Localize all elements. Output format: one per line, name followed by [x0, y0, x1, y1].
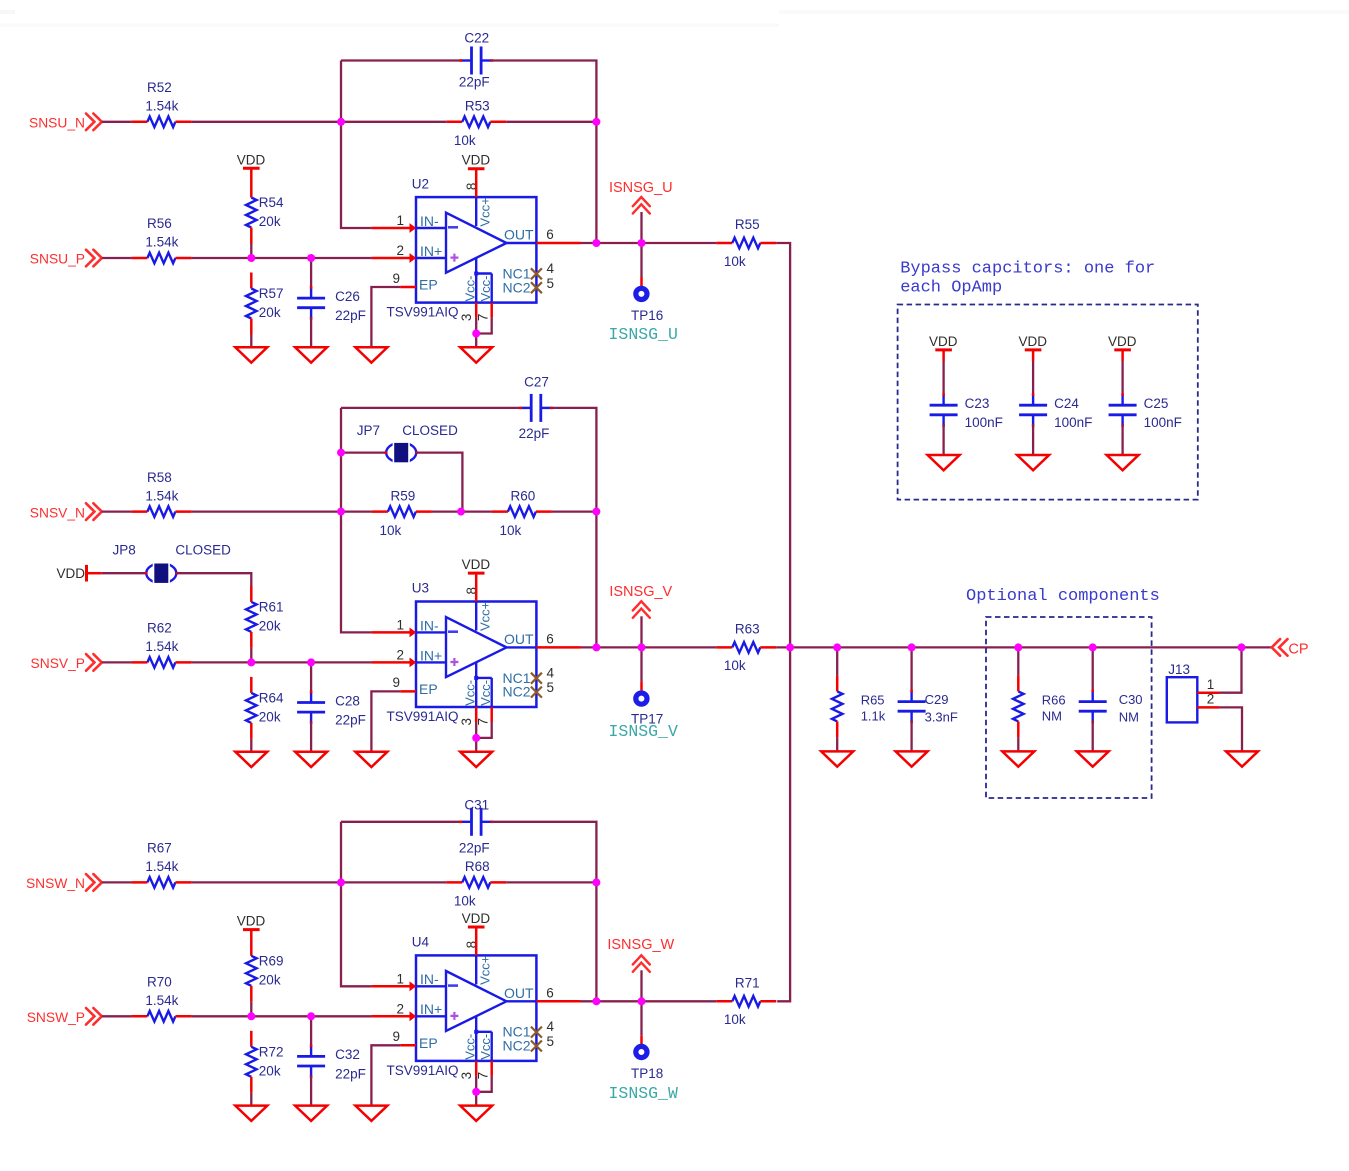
- svg-text:J13: J13: [1168, 662, 1190, 677]
- junction: [592, 239, 600, 247]
- wire EP to ground: [371, 691, 400, 751]
- svg-text:Optional components: Optional components: [966, 587, 1160, 606]
- svg-text:R61: R61: [259, 599, 284, 614]
- svg-text:2: 2: [396, 243, 404, 258]
- wire port to R52: [102, 121, 132, 123]
- net label ISNSG_V: [609, 584, 672, 618]
- wire OUT to R63: [581, 646, 717, 648]
- svg-text:SNSW_P: SNSW_P: [27, 1010, 85, 1025]
- svg-text:EP: EP: [419, 277, 438, 293]
- svg-text:Vcc-: Vcc-: [463, 1034, 478, 1060]
- jumper JP8 (closed): [145, 562, 179, 585]
- pin stubs (red): [371, 573, 580, 722]
- dashed box bypass capacitors: [898, 305, 1198, 500]
- svg-text:C25: C25: [1144, 396, 1169, 411]
- wire net flag to OUT line: [640, 970, 642, 1001]
- junction: [472, 1088, 480, 1096]
- wire OUT to R55: [581, 242, 717, 244]
- svg-text:1: 1: [396, 971, 404, 986]
- svg-text:5: 5: [547, 1034, 555, 1049]
- symbol body: [416, 602, 536, 708]
- power VDD: [237, 914, 266, 930]
- svg-text:NC2: NC2: [503, 279, 531, 295]
- ground: [295, 347, 327, 362]
- svg-text:1.54k: 1.54k: [145, 488, 178, 503]
- wire R66 to ground: [1017, 737, 1019, 751]
- svg-text:R60: R60: [511, 488, 536, 503]
- wire OUT line down to test point: [640, 647, 642, 681]
- svg-text:4: 4: [547, 1019, 555, 1034]
- wire R67 to feedback node: [191, 881, 341, 883]
- junction: [1089, 643, 1097, 651]
- junction: [592, 643, 600, 651]
- port SNSU_N: [29, 114, 102, 131]
- svg-text:1.54k: 1.54k: [145, 99, 178, 114]
- wire net flag to OUT line: [640, 212, 642, 243]
- dashed box optional components: [986, 617, 1152, 798]
- svg-text:1: 1: [396, 618, 404, 633]
- resistor R68: [446, 859, 506, 909]
- svg-text:9: 9: [392, 675, 400, 690]
- resistor R69: [246, 940, 284, 1002]
- resistor R55: [716, 217, 776, 269]
- svg-text:NM: NM: [1119, 710, 1139, 725]
- svg-text:ISNSG_U: ISNSG_U: [609, 325, 678, 344]
- wire port to R56: [102, 257, 132, 259]
- resistor R67: [131, 841, 191, 888]
- svg-text:IN-: IN-: [420, 617, 439, 633]
- junction: [247, 658, 255, 666]
- net label ISNSG_W: [607, 937, 674, 972]
- svg-text:IN+: IN+: [420, 243, 442, 259]
- svg-text:OUT: OUT: [504, 985, 534, 1001]
- svg-text:SNSV_N: SNSV_N: [30, 505, 85, 520]
- plus minus marks: [448, 984, 458, 987]
- svg-text:ISNSG_W: ISNSG_W: [609, 1084, 678, 1103]
- wire R59 to mid junction: [432, 510, 492, 512]
- svg-text:TSV991AIQ: TSV991AIQ: [387, 709, 459, 724]
- svg-text:1.54k: 1.54k: [145, 639, 178, 654]
- svg-text:SNSV_P: SNSV_P: [31, 656, 85, 671]
- ground: [295, 752, 327, 767]
- svg-text:22pF: 22pF: [335, 308, 366, 323]
- capacitor C26: [297, 286, 366, 323]
- svg-text:C27: C27: [524, 374, 549, 389]
- pin stubs: [1197, 693, 1219, 708]
- op-amp U3: [371, 573, 580, 725]
- svg-text:2: 2: [396, 1001, 404, 1016]
- plus minus marks: [448, 226, 458, 229]
- net label ISNSG_U: [609, 180, 673, 214]
- svg-text:10k: 10k: [380, 523, 402, 538]
- junction: [592, 997, 600, 1005]
- svg-text:IN-: IN-: [420, 213, 439, 229]
- svg-text:10k: 10k: [454, 894, 476, 909]
- svg-text:CP: CP: [1288, 642, 1308, 658]
- junction: [247, 1012, 255, 1020]
- svg-text:VDD: VDD: [929, 334, 958, 349]
- wire down to R65: [836, 647, 838, 675]
- ground: [1017, 455, 1049, 470]
- svg-text:VDD: VDD: [237, 914, 266, 929]
- svg-text:R54: R54: [259, 195, 284, 210]
- svg-text:IN-: IN-: [420, 971, 439, 987]
- svg-text:EP: EP: [419, 1035, 438, 1051]
- wire left vertical feedback: [341, 822, 371, 987]
- svg-text:22pF: 22pF: [459, 841, 490, 856]
- wire R69 to P line: [250, 1002, 252, 1017]
- svg-text:R64: R64: [259, 690, 284, 705]
- ground: [1002, 751, 1034, 766]
- resistor R65: [832, 675, 886, 737]
- svg-text:C28: C28: [335, 693, 360, 708]
- svg-text:C26: C26: [335, 289, 360, 304]
- svg-text:U3: U3: [412, 581, 429, 596]
- svg-text:R65: R65: [861, 692, 885, 707]
- wire net flag to OUT line: [640, 616, 642, 647]
- svg-text:R52: R52: [147, 80, 172, 95]
- faint page-edge bands (decorative): [0, 10, 15, 14]
- svg-text:1.54k: 1.54k: [145, 993, 178, 1008]
- wire R62 to IN+ pin: [191, 661, 371, 663]
- junction: [337, 118, 345, 126]
- svg-text:Vcc-: Vcc-: [478, 276, 493, 302]
- wire P line down to C28: [310, 662, 312, 692]
- wire OUT to R71: [581, 1000, 717, 1002]
- svg-text:R58: R58: [147, 470, 172, 485]
- svg-text:100nF: 100nF: [1054, 415, 1092, 430]
- resistor R59: [372, 488, 432, 538]
- svg-text:R72: R72: [259, 1044, 284, 1059]
- svg-text:100nF: 100nF: [1144, 415, 1182, 430]
- ground: [235, 752, 267, 767]
- svg-text:OUT: OUT: [504, 227, 534, 243]
- resistor R53: [446, 99, 506, 149]
- svg-text:R53: R53: [465, 99, 490, 114]
- wire EP to ground: [371, 287, 400, 347]
- ground: [460, 347, 492, 362]
- port CP: [1272, 639, 1309, 658]
- svg-text:6: 6: [546, 631, 554, 646]
- wire C29 to ground: [910, 721, 912, 751]
- note Bypass capacitors: [900, 259, 1155, 297]
- op-amp U2: [371, 169, 580, 321]
- test point TP16: [631, 288, 663, 323]
- svg-text:Vcc+: Vcc+: [478, 602, 493, 631]
- wire R61 to P line: [250, 648, 252, 663]
- svg-text:3: 3: [459, 718, 474, 726]
- svg-text:R56: R56: [147, 216, 172, 231]
- test point TP17: [631, 693, 663, 726]
- wire VDD to JP8: [88, 572, 102, 575]
- svg-text:10k: 10k: [724, 658, 746, 673]
- resistor R63: [716, 621, 776, 673]
- junction: [472, 734, 480, 742]
- ground: [460, 1106, 492, 1121]
- svg-text:22pF: 22pF: [335, 713, 366, 728]
- svg-text:IN+: IN+: [420, 1001, 442, 1017]
- svg-text:R62: R62: [147, 621, 172, 636]
- resistor R72: [246, 1031, 284, 1093]
- svg-text:Bypass capcitors: one for: Bypass capcitors: one for: [900, 259, 1155, 278]
- svg-text:CLOSED: CLOSED: [175, 543, 231, 558]
- pin stubs (red): [371, 169, 580, 318]
- capacitor C31: [459, 798, 493, 856]
- wire R57 to ground: [250, 335, 252, 348]
- wire top feedback right of cap, down to output node: [492, 822, 597, 1002]
- wire C28 to ground: [310, 722, 312, 752]
- capacitor C27: [519, 374, 553, 441]
- wire C30 to ground: [1092, 721, 1094, 751]
- junction: [1014, 643, 1022, 651]
- wire left vertical feedback: [341, 61, 371, 229]
- wire C24 to ground: [1032, 425, 1034, 455]
- ground: [355, 347, 387, 362]
- ground: [821, 751, 853, 766]
- wire down to C29: [910, 647, 912, 691]
- wire JP8 to R61: [177, 573, 252, 587]
- capacitor C22: [459, 31, 493, 90]
- svg-text:20k: 20k: [259, 709, 281, 724]
- resistor R61: [246, 586, 284, 648]
- svg-text:22pF: 22pF: [459, 75, 490, 90]
- svg-text:NC2: NC2: [503, 684, 531, 700]
- junction: [1238, 643, 1246, 651]
- svg-text:1.54k: 1.54k: [145, 859, 178, 874]
- svg-text:TSV991AIQ: TSV991AIQ: [387, 305, 459, 320]
- junction: [638, 997, 646, 1005]
- port SNSW_P: [27, 1008, 102, 1025]
- svg-text:ISNSG_V: ISNSG_V: [609, 584, 672, 600]
- resistor R60: [492, 488, 552, 538]
- svg-text:20k: 20k: [259, 1063, 281, 1078]
- resistor R66: [1013, 675, 1066, 737]
- power VDD: [1108, 334, 1137, 350]
- svg-text:R59: R59: [391, 488, 416, 503]
- resistor R70: [131, 975, 191, 1022]
- pin arrows IN- IN+ (red): [410, 223, 417, 233]
- svg-text:20k: 20k: [259, 214, 281, 229]
- svg-text:100nF: 100nF: [965, 415, 1003, 430]
- wire R68 to right node: [506, 881, 596, 883]
- wire R65 to ground: [836, 737, 838, 751]
- svg-text:C23: C23: [965, 396, 990, 411]
- svg-text:R66: R66: [1042, 692, 1066, 707]
- wire OUT line down to test point: [640, 243, 642, 277]
- wire C25 to ground: [1121, 425, 1123, 455]
- svg-text:3.3nF: 3.3nF: [925, 710, 958, 725]
- wire output bus (R55/R63/R71 common): [776, 243, 790, 1001]
- svg-text:TSV991AIQ: TSV991AIQ: [387, 1063, 459, 1078]
- wire to ground: [475, 738, 477, 752]
- junction: [786, 643, 794, 651]
- svg-text:C31: C31: [464, 798, 489, 813]
- svg-text:4: 4: [547, 665, 555, 680]
- svg-text:C32: C32: [335, 1047, 360, 1062]
- port SNSW_N: [26, 874, 102, 891]
- pin arrows IN- IN+ (red): [410, 628, 417, 638]
- svg-text:7: 7: [476, 314, 491, 322]
- ground: [295, 1106, 327, 1121]
- svg-text:9: 9: [392, 271, 400, 286]
- svg-text:1: 1: [396, 213, 404, 228]
- svg-text:C30: C30: [1119, 692, 1143, 707]
- svg-text:10k: 10k: [454, 133, 476, 148]
- svg-text:VDD: VDD: [462, 557, 491, 572]
- capacitor C25: [1109, 393, 1182, 430]
- resistor R62: [131, 621, 191, 668]
- svg-text:CLOSED: CLOSED: [402, 423, 458, 438]
- svg-text:5: 5: [547, 680, 555, 695]
- svg-text:U2: U2: [412, 176, 429, 191]
- wire P line down to C26: [310, 258, 312, 288]
- wire R54 to P line: [250, 244, 252, 259]
- svg-text:EP: EP: [419, 681, 438, 697]
- svg-text:SNSU_N: SNSU_N: [29, 116, 85, 131]
- svg-text:3: 3: [459, 314, 474, 322]
- wire node to R68: [341, 881, 446, 883]
- svg-text:VDD: VDD: [1019, 334, 1048, 349]
- capacitor C30: [1079, 690, 1143, 725]
- svg-text:C24: C24: [1054, 396, 1079, 411]
- svg-text:R69: R69: [259, 953, 284, 968]
- resistor R56: [131, 216, 191, 263]
- op-amp U4: [371, 927, 580, 1079]
- test point TP18: [631, 1046, 663, 1081]
- svg-text:20k: 20k: [259, 972, 281, 987]
- wire pins 3,7 to ground: [475, 318, 477, 334]
- power VDD: [929, 334, 958, 350]
- power VDD: [1019, 334, 1048, 350]
- svg-text:20k: 20k: [259, 305, 281, 320]
- jumper JP7 (closed): [384, 441, 418, 464]
- ground: [235, 347, 267, 362]
- wire port to R67: [102, 881, 132, 883]
- svg-text:C29: C29: [925, 692, 949, 707]
- symbol body: [416, 197, 536, 303]
- junction: [472, 330, 480, 338]
- wire port to R62: [102, 661, 132, 663]
- junction: [833, 643, 841, 651]
- wire VDD to R54: [250, 168, 253, 182]
- svg-text:R67: R67: [147, 841, 172, 856]
- svg-text:SNSU_P: SNSU_P: [30, 252, 85, 267]
- svg-text:R71: R71: [735, 975, 760, 990]
- svg-text:R68: R68: [465, 859, 490, 874]
- wire R56 to IN+ pin: [191, 257, 371, 259]
- svg-text:IN+: IN+: [420, 647, 442, 663]
- junction: [307, 254, 315, 262]
- svg-text:4: 4: [547, 261, 555, 276]
- svg-text:VDD: VDD: [237, 152, 266, 167]
- svg-text:ISNSG_W: ISNSG_W: [607, 937, 674, 953]
- wire R52 to feedback node: [191, 121, 341, 123]
- svg-text:TP16: TP16: [631, 308, 663, 323]
- svg-text:5: 5: [547, 276, 555, 291]
- svg-text:Vcc-: Vcc-: [463, 680, 478, 706]
- wire node to R53: [341, 121, 446, 123]
- svg-text:10k: 10k: [500, 523, 522, 538]
- resistor R58: [131, 470, 191, 517]
- resistor R54: [246, 182, 284, 244]
- ground: [355, 752, 387, 767]
- ground: [460, 752, 492, 767]
- wire VDD to C24: [1032, 350, 1035, 361]
- plus minus marks: [448, 630, 458, 633]
- wire pins 3,7 to ground: [475, 1076, 477, 1092]
- svg-text:Vcc+: Vcc+: [478, 197, 493, 226]
- svg-text:2: 2: [396, 648, 404, 663]
- capacitor C29: [898, 690, 958, 725]
- wire J13 pin1 to CP net: [1219, 647, 1242, 692]
- wire C26 to ground: [310, 318, 312, 348]
- wire R58 to feedback node: [191, 510, 341, 512]
- wire R72 to ground: [250, 1093, 252, 1106]
- pin stubs (red): [371, 927, 580, 1076]
- wire top feedback right of cap, down to output node: [552, 408, 597, 648]
- junction: [638, 239, 646, 247]
- svg-text:Vcc-: Vcc-: [478, 1034, 493, 1060]
- svg-text:1.54k: 1.54k: [145, 235, 178, 250]
- capacitor C32: [297, 1044, 366, 1081]
- junction: [592, 508, 600, 516]
- junction: [337, 508, 345, 516]
- wire VDD to C25: [1121, 350, 1124, 361]
- wire to ground: [475, 334, 477, 348]
- svg-text:22pF: 22pF: [335, 1066, 366, 1081]
- svg-text:C22: C22: [464, 31, 489, 46]
- capacitor C24: [1019, 393, 1092, 430]
- junction: [638, 643, 646, 651]
- svg-text:JP8: JP8: [113, 543, 136, 558]
- wire R60 to right node: [552, 510, 597, 512]
- svg-text:1.1k: 1.1k: [861, 708, 886, 723]
- power VDD: [462, 557, 491, 573]
- wire pins 3,7 to ground: [475, 722, 477, 738]
- wire EP to ground: [371, 1045, 400, 1105]
- resistor R57: [246, 273, 284, 335]
- port SNSV_P: [31, 654, 102, 671]
- svg-text:10k: 10k: [724, 1012, 746, 1027]
- svg-text:U4: U4: [412, 935, 430, 950]
- svg-text:TP18: TP18: [631, 1066, 663, 1081]
- wire C23 to ground: [942, 425, 944, 455]
- wire VDD to C23: [942, 350, 945, 361]
- svg-text:3: 3: [459, 1072, 474, 1080]
- junction: [592, 878, 600, 886]
- svg-text:Vcc-: Vcc-: [463, 276, 478, 302]
- wire to ground: [475, 1092, 477, 1106]
- svg-text:VDD: VDD: [462, 911, 491, 926]
- resistor R71: [716, 975, 776, 1027]
- wire top feedback left of cap: [341, 821, 461, 823]
- svg-text:R55: R55: [735, 217, 760, 232]
- power VDD: [237, 152, 266, 168]
- svg-text:NM: NM: [1042, 708, 1062, 723]
- wire C32 to ground: [310, 1076, 312, 1106]
- svg-text:10k: 10k: [724, 254, 746, 269]
- svg-text:R57: R57: [259, 286, 284, 301]
- wire R64 to ground: [250, 739, 252, 752]
- port SNSV_N: [30, 503, 102, 520]
- wire JP7 to R59/R60 node: [417, 453, 463, 512]
- pin arrows IN- IN+ (red): [410, 981, 417, 991]
- wire top feedback left of cap: [341, 407, 521, 409]
- svg-text:each OpAmp: each OpAmp: [900, 279, 1002, 298]
- svg-text:1: 1: [1207, 677, 1215, 692]
- connector J13: [1167, 662, 1219, 723]
- port SNSU_P: [30, 250, 102, 267]
